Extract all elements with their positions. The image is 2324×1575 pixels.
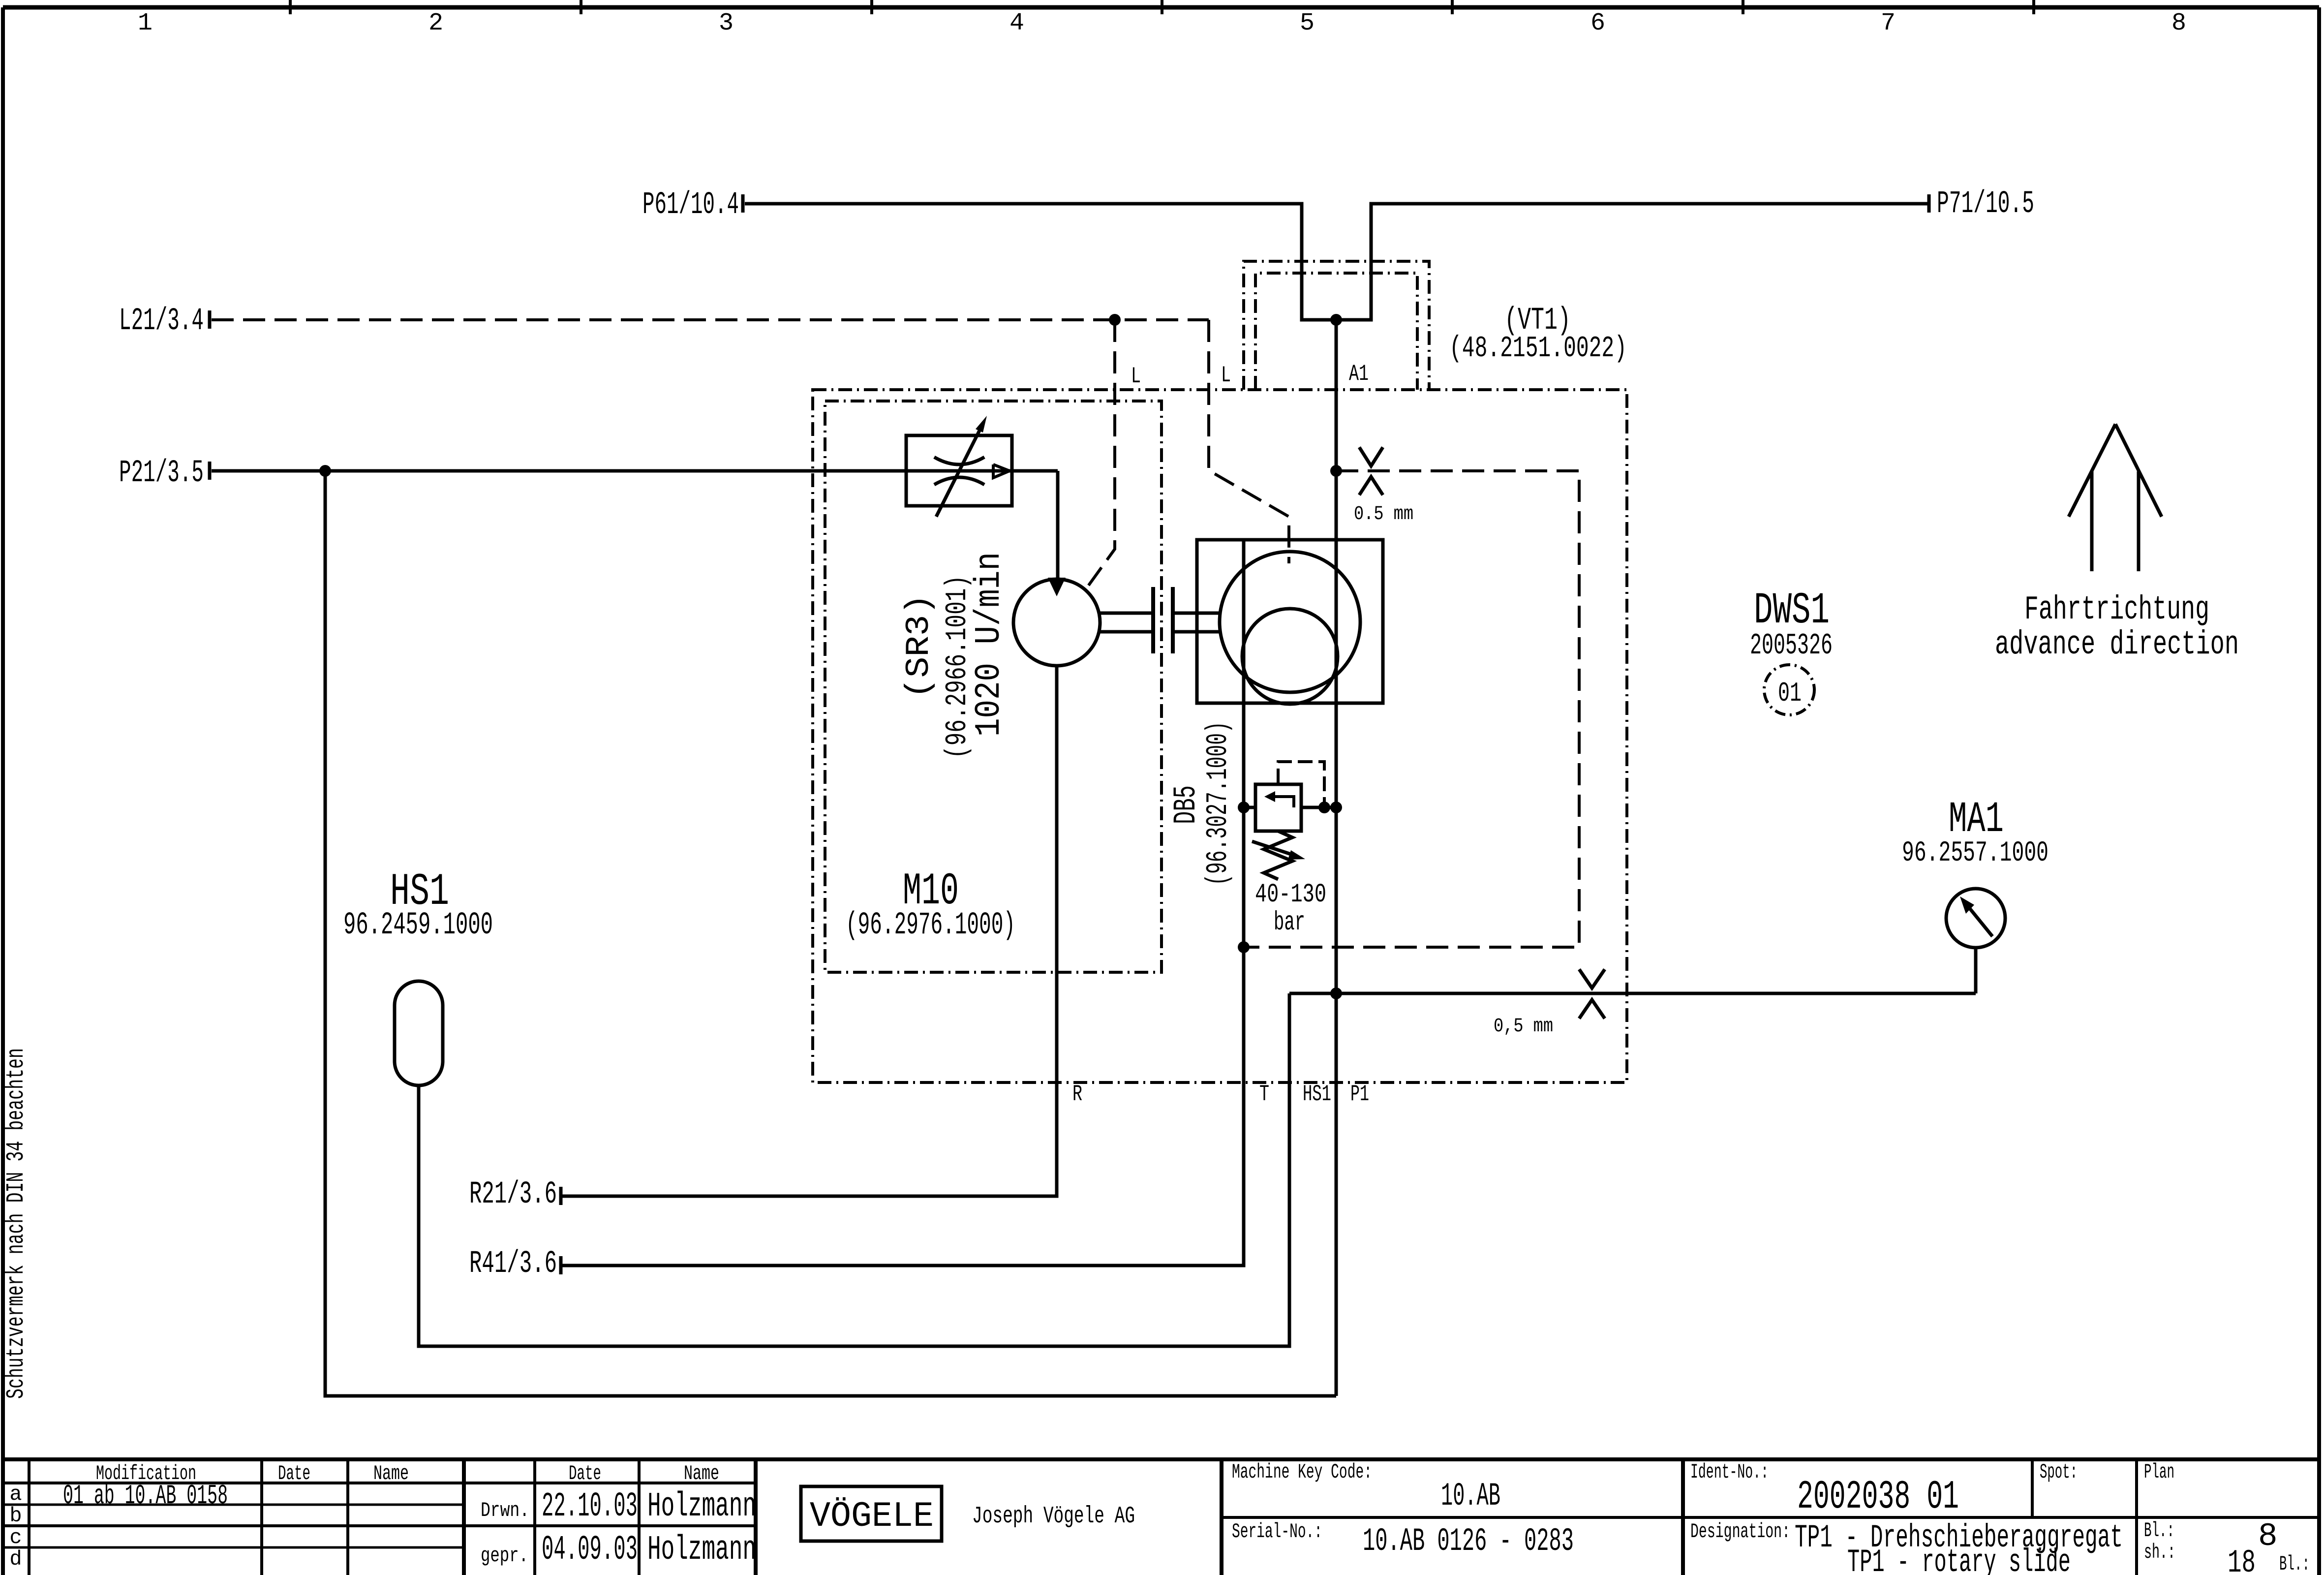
assembly outer boundary box [813, 390, 1627, 1082]
svg-text:Spot:: Spot: [2040, 1460, 2078, 1484]
gauge MA1 stem [1974, 948, 1978, 993]
sheet count cell [2144, 1518, 2310, 1575]
DB5 internal arrow [1264, 791, 1294, 807]
svg-text:18: 18 [2228, 1544, 2256, 1575]
DB5 adjustment arrow [1252, 841, 1305, 860]
wire motor R port down [561, 666, 1057, 1196]
revision circle 01 [1764, 665, 1814, 715]
svg-text:HS1: HS1 [1303, 1081, 1331, 1107]
advance direction arrow [2069, 424, 2162, 571]
svg-text:0,5 mm: 0,5 mm [1494, 1016, 1553, 1038]
restrictor arcs SR3 [934, 457, 984, 485]
svg-text:Serial-No.:: Serial-No.: [1232, 1520, 1322, 1544]
svg-text:Name: Name [373, 1462, 409, 1485]
orifice 0.5 mm [1359, 447, 1383, 495]
svg-text:04.09.03: 04.09.03 [542, 1531, 638, 1570]
orifice 0,5 mm [1579, 969, 1605, 1019]
ident no cell [1690, 1460, 1959, 1520]
svg-text:40-130: 40-130 [1255, 880, 1326, 910]
svg-text:2: 2 [428, 9, 443, 37]
svg-text:22.10.03: 22.10.03 [542, 1487, 638, 1526]
pilot wire L21 dashed [212, 318, 1209, 321]
label Fahrtrichtung [1995, 591, 2239, 664]
column numbers 1-8 [138, 9, 2186, 37]
svg-text:5: 5 [1300, 9, 1315, 37]
pilot wire A1 to T dashed [1244, 471, 1579, 947]
svg-text:(96.2976.1000): (96.2976.1000) [846, 908, 1015, 943]
pump circle small [1242, 609, 1338, 704]
label DWS1 [1750, 586, 1833, 663]
wire P61 to VT1 [745, 204, 1929, 320]
svg-text:Holzmann: Holzmann [647, 1531, 756, 1570]
svg-text:Drwn.: Drwn. [481, 1499, 529, 1522]
drawn row [481, 1487, 756, 1526]
svg-text:L: L [1221, 363, 1231, 388]
net label P21/3.5 [119, 456, 210, 491]
svg-text:L: L [1131, 364, 1141, 389]
flow direction triangle SR3 [993, 464, 1009, 478]
svg-text:(SR3): (SR3) [900, 594, 938, 699]
svg-text:b: b [9, 1504, 22, 1528]
svg-text:Fahrtrichtung: Fahrtrichtung [2024, 591, 2209, 629]
wire manifold to MA1 [1289, 992, 1976, 995]
svg-text:P71/10.5: P71/10.5 [1937, 186, 2034, 222]
wire P21 down-left to P1 [325, 471, 1336, 1396]
wire P21 to flow valve [212, 469, 1058, 473]
rotary slide VT1 outer boundary [1244, 261, 1429, 390]
svg-text:6: 6 [1590, 9, 1605, 37]
svg-text:0.5 mm: 0.5 mm [1354, 503, 1413, 525]
row labels a b c d [9, 1482, 22, 1571]
svg-text:3: 3 [719, 9, 734, 37]
node junction A1 pilot tap [1330, 465, 1342, 477]
DB5 pilot dashed loop [1278, 762, 1324, 803]
svg-text:96.2557.1000: 96.2557.1000 [1902, 837, 2049, 869]
svg-text:Plan: Plan [2144, 1460, 2174, 1484]
table headers [96, 1462, 719, 1485]
relief valve DB5 body [1255, 784, 1301, 831]
svg-text:Date: Date [569, 1462, 601, 1485]
svg-text:advance direction: advance direction [1995, 626, 2239, 664]
adjustment arrow SR3 [936, 416, 987, 517]
wire A1 vertical [1335, 320, 1338, 1396]
flow control valve SR3 body [906, 435, 1012, 506]
svg-text:Name: Name [684, 1462, 719, 1485]
svg-text:DB5: DB5 [1169, 785, 1204, 824]
svg-text:P1: P1 [1350, 1081, 1369, 1107]
svg-text:10.AB: 10.AB [1441, 1478, 1500, 1514]
svg-text:(48.2151.0022): (48.2151.0022) [1449, 332, 1627, 366]
label M10 [846, 865, 1015, 943]
svg-text:Ident-No.:: Ident-No.: [1690, 1460, 1769, 1484]
node junction P21 branch [319, 465, 331, 477]
svg-text:d: d [9, 1547, 22, 1571]
wire DB5 right port [1301, 806, 1336, 809]
label MA1 [1902, 796, 2049, 869]
net label R41/3.6 [469, 1246, 561, 1282]
svg-text:8: 8 [2171, 9, 2186, 37]
svg-text:Holzmann: Holzmann [647, 1487, 756, 1526]
svg-text:(96.3027.1000): (96.3027.1000) [1202, 721, 1235, 886]
svg-text:Date: Date [278, 1462, 310, 1485]
node junction DB5-A1 [1330, 802, 1342, 813]
pump circle large [1220, 552, 1360, 692]
svg-text:TP1 - rotary slide: TP1 - rotary slide [1847, 1544, 2071, 1575]
svg-text:R: R [1072, 1081, 1082, 1107]
node junction T-DB5 [1238, 802, 1250, 813]
DB5 spring [1264, 831, 1292, 879]
serial no cell [1232, 1520, 1574, 1560]
svg-text:R41/3.6: R41/3.6 [469, 1246, 557, 1282]
svg-text:P21/3.5: P21/3.5 [119, 456, 204, 491]
pump housing box [1197, 540, 1383, 703]
title block grid right [1222, 1459, 2319, 1575]
svg-text:8: 8 [2258, 1518, 2278, 1555]
svg-text:L21/3.4: L21/3.4 [119, 304, 204, 339]
net label R21/3.6 [469, 1177, 561, 1212]
svg-text:VÖGELE: VÖGELE [810, 1496, 934, 1537]
rotary slide VT1 inner boundary [1255, 273, 1417, 390]
svg-text:01 ab 10.AB 0158: 01 ab 10.AB 0158 [63, 1480, 228, 1512]
net label P71/10.5 [1929, 186, 2034, 222]
node junction P1-MA1 [1330, 988, 1342, 999]
checked row [481, 1531, 756, 1570]
motor assembly M10 boundary box [825, 401, 1162, 972]
svg-text:Machine Key Code:: Machine Key Code: [1232, 1460, 1372, 1484]
svg-text:gepr.: gepr. [481, 1544, 528, 1568]
svg-text:2002038 01: 2002038 01 [1797, 1474, 1959, 1520]
label (VT1) [1449, 303, 1627, 366]
VOGELE logo [801, 1486, 942, 1541]
pilot drain wire to motor case [1088, 320, 1115, 587]
wire T line through pump [561, 540, 1244, 1266]
svg-text:2005326: 2005326 [1750, 629, 1833, 663]
svg-text:Designation:: Designation: [1690, 1520, 1790, 1544]
svg-text:Bl.:: Bl.: [2144, 1519, 2174, 1543]
wire DB5 left port [1244, 806, 1255, 809]
net label P61/10.4 [642, 187, 743, 223]
accumulator HS1 capsule [395, 981, 443, 1085]
svg-text:sh.:: sh.: [2144, 1541, 2175, 1564]
hydraulic motor M10 circle [1013, 579, 1100, 666]
svg-text:7: 7 [1881, 9, 1896, 37]
wire HS1 to manifold [419, 993, 1289, 1346]
pump shaft [1174, 613, 1220, 632]
label HS1 [343, 866, 493, 943]
svg-text:P61/10.4: P61/10.4 [642, 187, 739, 223]
net label L21/3.4 [119, 304, 210, 339]
svg-text:Joseph Vögele AG: Joseph Vögele AG [972, 1503, 1135, 1530]
svg-text:01: 01 [1778, 678, 1802, 709]
title block top line [3, 1457, 2319, 1461]
node junction T pilot [1238, 941, 1250, 953]
svg-text:a: a [9, 1482, 22, 1506]
supply arrowhead into motor [1048, 578, 1066, 596]
designation cell [1690, 1519, 2123, 1575]
svg-text:Schutzvermerk nach DIN 34 beac: Schutzvermerk nach DIN 34 beachten [2, 1048, 31, 1399]
pilot drain wire to pump case [1209, 320, 1289, 563]
node junction P61/P71/A1 [1330, 314, 1342, 326]
svg-text:Bl.:: Bl.: [2279, 1552, 2310, 1575]
node junction DB5 pilot tap [1318, 802, 1330, 813]
node junction on L21 [1109, 314, 1121, 326]
top border column ticks [290, 0, 2034, 14]
svg-text:T: T [1259, 1081, 1269, 1107]
title block grid left [3, 1459, 756, 1575]
wire SR3 outlet to motor [1056, 471, 1060, 579]
svg-text:DWS1: DWS1 [1754, 586, 1830, 636]
svg-text:4: 4 [1009, 9, 1024, 37]
svg-text:1: 1 [138, 9, 153, 37]
svg-text:c: c [9, 1526, 22, 1549]
motor shaft [1100, 613, 1152, 632]
svg-text:A1: A1 [1349, 361, 1369, 387]
pressure gauge MA1 [1946, 889, 2005, 948]
svg-text:96.2459.1000: 96.2459.1000 [343, 908, 493, 943]
coupling bars [1153, 587, 1173, 653]
svg-text:10.AB 0126 - 0283: 10.AB 0126 - 0283 [1363, 1523, 1574, 1560]
svg-text:1020 U/min: 1020 U/min [969, 552, 1009, 737]
value label 40-130 bar [1255, 880, 1326, 938]
svg-text:R21/3.6: R21/3.6 [469, 1177, 557, 1212]
svg-text:bar: bar [1274, 908, 1305, 938]
machine key code cell [1232, 1460, 1500, 1514]
